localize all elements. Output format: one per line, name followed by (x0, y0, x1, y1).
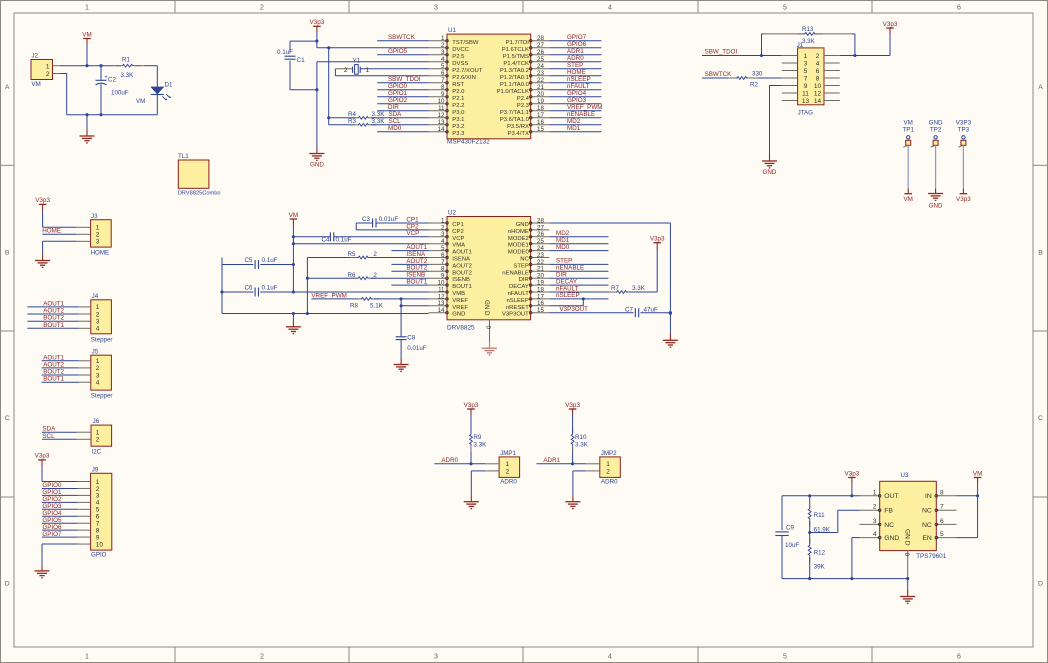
svg-text:MD0: MD0 (556, 244, 570, 251)
svg-text:4: 4 (441, 56, 445, 63)
svg-text:P3.7/TA1.1: P3.7/TA1.1 (500, 110, 529, 116)
svg-text:U3: U3 (901, 472, 909, 479)
svg-text:1: 1 (96, 358, 100, 365)
svg-text:ISENA: ISENA (452, 257, 470, 263)
svg-text:P2.4: P2.4 (517, 96, 530, 102)
svg-text:J4: J4 (92, 293, 99, 300)
svg-text:GPIO7: GPIO7 (567, 34, 587, 41)
svg-text:3.3K: 3.3K (121, 72, 135, 79)
svg-text:NC: NC (922, 508, 932, 515)
svg-text:1: 1 (804, 53, 808, 60)
svg-text:24: 24 (537, 63, 544, 70)
svg-text:3: 3 (441, 49, 445, 56)
svg-text:22: 22 (537, 77, 544, 84)
svg-text:MODE1: MODE1 (508, 243, 529, 249)
svg-text:2: 2 (344, 67, 348, 74)
svg-text:14: 14 (438, 307, 445, 314)
svg-text:GND: GND (310, 162, 324, 169)
svg-text:1: 1 (506, 461, 510, 468)
svg-text:HOME: HOME (42, 227, 61, 234)
svg-text:SDA: SDA (389, 111, 403, 118)
svg-text:V3p3: V3p3 (883, 21, 898, 28)
svg-text:AOUT1: AOUT1 (452, 250, 472, 256)
svg-text:2: 2 (96, 311, 100, 318)
svg-text:DRV8825: DRV8825 (447, 325, 475, 332)
svg-text:VREF_PWM: VREF_PWM (567, 104, 602, 111)
svg-text:P2.3: P2.3 (517, 103, 530, 109)
svg-text:A: A (5, 84, 10, 91)
svg-text:ADR0: ADR0 (567, 55, 584, 62)
svg-text:5.1K: 5.1K (370, 303, 384, 310)
svg-text:4: 4 (96, 380, 100, 387)
svg-text:GN D: GN D (483, 300, 490, 316)
svg-text:VREF: VREF (452, 305, 468, 311)
svg-text:28: 28 (537, 35, 544, 42)
svg-text:GND: GND (884, 535, 899, 542)
svg-text:GND: GND (929, 203, 943, 210)
svg-text:10: 10 (438, 98, 445, 105)
svg-text:JMP2: JMP2 (601, 450, 617, 457)
svg-text:nHOME: nHOME (508, 229, 529, 235)
svg-text:13: 13 (438, 119, 445, 126)
svg-text:TL1: TL1 (178, 153, 189, 160)
svg-text:2: 2 (96, 232, 100, 239)
svg-text:2: 2 (373, 251, 377, 258)
svg-text:3: 3 (434, 654, 438, 661)
svg-text:Stepper: Stepper (91, 392, 113, 399)
svg-text:15: 15 (537, 126, 544, 133)
svg-text:14: 14 (814, 98, 822, 105)
svg-text:Stepper: Stepper (91, 337, 113, 344)
svg-text:D: D (1038, 581, 1043, 588)
svg-text:3.3K: 3.3K (802, 38, 816, 45)
svg-text:P2.1: P2.1 (452, 96, 464, 102)
svg-text:U1: U1 (448, 27, 456, 34)
svg-text:J1: J1 (797, 42, 804, 49)
svg-text:MSP430F2132: MSP430F2132 (447, 139, 490, 146)
svg-text:nSLEEP: nSLEEP (556, 292, 580, 299)
svg-text:12: 12 (438, 112, 445, 119)
svg-text:4: 4 (816, 60, 820, 67)
svg-text:P3.1: P3.1 (452, 117, 464, 123)
svg-text:VCP: VCP (452, 236, 464, 242)
svg-text:MD2: MD2 (567, 118, 581, 125)
svg-text:R2: R2 (750, 82, 758, 89)
svg-text:V3p3: V3p3 (35, 197, 50, 204)
svg-text:5: 5 (96, 507, 100, 514)
svg-text:3.3K: 3.3K (372, 111, 386, 118)
svg-text:VM: VM (82, 31, 91, 38)
svg-text:5: 5 (441, 63, 445, 70)
svg-text:MODE2: MODE2 (508, 236, 529, 242)
svg-text:1: 1 (606, 461, 610, 468)
svg-text:I2C: I2C (92, 448, 102, 455)
svg-text:GPIO5: GPIO5 (42, 517, 62, 524)
svg-text:6: 6 (940, 518, 944, 525)
svg-text:6: 6 (441, 70, 445, 77)
svg-text:V3p3: V3p3 (956, 196, 971, 203)
svg-text:J5: J5 (92, 348, 99, 355)
svg-text:ADR0: ADR0 (500, 479, 517, 486)
svg-text:12: 12 (814, 90, 822, 97)
svg-text:8: 8 (816, 75, 820, 82)
svg-text:P3.2: P3.2 (452, 124, 464, 130)
svg-text:ISENA: ISENA (406, 251, 426, 258)
svg-text:VM: VM (289, 212, 298, 219)
svg-text:NC: NC (520, 257, 529, 263)
svg-text:3: 3 (96, 239, 100, 246)
svg-text:J3: J3 (91, 213, 98, 220)
svg-text:U2: U2 (448, 210, 456, 217)
svg-text:J2: J2 (32, 53, 39, 60)
svg-text:C8: C8 (407, 335, 416, 342)
svg-text:5: 5 (940, 531, 944, 538)
svg-text:nENABLE: nENABLE (567, 111, 595, 118)
svg-text:1: 1 (85, 654, 89, 661)
svg-text:6: 6 (96, 514, 100, 521)
svg-text:2: 2 (873, 504, 877, 511)
svg-text:R9: R9 (473, 434, 482, 441)
svg-text:R4: R4 (348, 111, 357, 118)
svg-text:C4: C4 (322, 236, 331, 243)
svg-text:0.1uF: 0.1uF (336, 236, 352, 243)
svg-text:3: 3 (434, 5, 438, 12)
svg-text:17: 17 (537, 112, 544, 119)
svg-text:nFAULT: nFAULT (508, 291, 530, 297)
svg-text:SBWTCK: SBWTCK (388, 34, 416, 41)
svg-text:C5: C5 (245, 257, 254, 264)
svg-text:AOUT1: AOUT1 (43, 300, 64, 307)
svg-text:ISENB: ISENB (452, 277, 470, 283)
svg-text:B: B (5, 250, 10, 257)
svg-text:AOUT2: AOUT2 (43, 308, 64, 315)
svg-text:P3.5/RX: P3.5/RX (507, 124, 529, 130)
svg-text:P3.4/TX: P3.4/TX (508, 131, 529, 137)
svg-text:3: 3 (873, 518, 877, 525)
svg-text:R8: R8 (350, 303, 359, 310)
svg-text:P2.5: P2.5 (452, 54, 465, 60)
svg-text:AOUT2: AOUT2 (43, 361, 64, 368)
svg-text:1: 1 (96, 225, 100, 232)
svg-text:7: 7 (96, 521, 100, 528)
svg-text:C1: C1 (297, 57, 306, 64)
svg-text:MD1: MD1 (567, 125, 581, 132)
svg-text:MD0: MD0 (388, 125, 402, 132)
svg-text:4: 4 (608, 654, 612, 661)
svg-text:25: 25 (537, 56, 544, 63)
svg-text:BOUT1: BOUT1 (452, 284, 472, 290)
svg-text:7: 7 (804, 75, 808, 82)
svg-text:nSLEEP: nSLEEP (507, 298, 529, 304)
svg-text:R12: R12 (814, 550, 826, 557)
svg-text:6: 6 (957, 654, 961, 661)
svg-text:VCP: VCP (406, 230, 419, 237)
svg-text:11: 11 (438, 105, 445, 112)
svg-text:HOME: HOME (567, 69, 586, 76)
svg-text:nFAULT: nFAULT (567, 83, 590, 90)
svg-text:HOME: HOME (91, 250, 110, 257)
svg-text:2: 2 (606, 468, 610, 475)
svg-text:3.3K: 3.3K (473, 442, 487, 449)
svg-text:GND: GND (763, 169, 777, 176)
svg-text:P1.4/TCK: P1.4/TCK (503, 61, 529, 67)
svg-text:100uF: 100uF (111, 90, 129, 97)
svg-text:26: 26 (537, 49, 544, 56)
svg-text:GND: GND (452, 312, 465, 318)
svg-text:TST/SBW: TST/SBW (452, 40, 479, 46)
svg-text:1: 1 (46, 63, 50, 70)
svg-text:C7: C7 (625, 306, 634, 313)
svg-text:VM: VM (136, 98, 145, 105)
svg-text:VM: VM (903, 196, 912, 203)
svg-text:V3P3: V3P3 (956, 119, 972, 126)
svg-text:19: 19 (537, 98, 544, 105)
svg-text:SDA: SDA (42, 426, 56, 433)
svg-text:8: 8 (96, 527, 100, 534)
svg-text:Y1: Y1 (353, 57, 361, 64)
svg-text:VREF: VREF (452, 298, 468, 304)
svg-text:3: 3 (96, 372, 100, 379)
svg-text:2: 2 (506, 468, 510, 475)
svg-text:ADR1: ADR1 (567, 48, 584, 55)
svg-text:20: 20 (537, 91, 544, 98)
svg-text:SBW_TDOI: SBW_TDOI (705, 49, 738, 56)
svg-text:1: 1 (873, 489, 877, 496)
svg-text:JMP1: JMP1 (500, 450, 516, 457)
svg-text:9: 9 (441, 91, 445, 98)
svg-text:2: 2 (96, 437, 100, 444)
svg-text:R6: R6 (348, 272, 357, 279)
svg-text:C9: C9 (786, 525, 795, 532)
svg-text:1: 1 (96, 304, 100, 311)
svg-text:3.3K: 3.3K (575, 442, 589, 449)
svg-text:0.1uF: 0.1uF (277, 49, 293, 56)
svg-text:V3p3: V3p3 (464, 402, 479, 409)
svg-text:4: 4 (873, 531, 877, 538)
svg-text:P1.7/TDI: P1.7/TDI (506, 40, 530, 46)
svg-text:STEP: STEP (567, 62, 583, 69)
svg-text:D: D (5, 581, 10, 588)
svg-text:R13: R13 (802, 26, 814, 33)
svg-text:2: 2 (373, 272, 377, 279)
svg-text:DVSS: DVSS (452, 61, 468, 67)
svg-text:10: 10 (96, 541, 104, 548)
svg-text:GPIO0: GPIO0 (42, 482, 62, 489)
svg-text:7: 7 (441, 77, 445, 84)
svg-text:VMB: VMB (452, 291, 465, 297)
svg-text:11: 11 (802, 90, 809, 97)
svg-text:nENABLE: nENABLE (502, 270, 529, 276)
svg-text:CP2: CP2 (452, 229, 463, 235)
svg-text:R3: R3 (348, 118, 357, 125)
svg-text:FB: FB (884, 508, 893, 515)
svg-text:V3p3: V3p3 (845, 470, 860, 477)
svg-text:V3p3: V3p3 (310, 19, 325, 26)
svg-text:2: 2 (46, 71, 50, 78)
svg-text:DRV8825Combo: DRV8825Combo (178, 191, 221, 197)
svg-text:GPIO3: GPIO3 (42, 503, 62, 510)
svg-text:0.1uF: 0.1uF (262, 257, 278, 264)
svg-text:10: 10 (814, 83, 822, 90)
svg-text:16: 16 (537, 119, 544, 126)
svg-text:2: 2 (441, 42, 445, 49)
svg-text:R1: R1 (122, 57, 130, 64)
svg-text:1: 1 (366, 67, 370, 74)
svg-text:VREF_PWM: VREF_PWM (311, 292, 346, 299)
svg-text:.47uF: .47uF (642, 306, 658, 313)
svg-text:BOUT2: BOUT2 (452, 270, 472, 276)
svg-text:VM: VM (32, 81, 41, 88)
svg-text:DECAY: DECAY (509, 284, 529, 290)
svg-text:VMA: VMA (452, 243, 465, 249)
svg-text:8: 8 (940, 489, 944, 496)
svg-text:21: 21 (537, 84, 544, 91)
svg-text:ISENB: ISENB (406, 272, 425, 279)
svg-text:C: C (5, 415, 10, 422)
svg-text:GND: GND (516, 222, 529, 228)
svg-text:GPIO1: GPIO1 (388, 90, 408, 97)
svg-text:2: 2 (816, 53, 820, 60)
svg-text:ADR0: ADR0 (441, 457, 458, 464)
svg-text:0: 0 (903, 553, 910, 557)
svg-text:P1.1/TA0.0: P1.1/TA0.0 (500, 82, 530, 88)
svg-text:OUT: OUT (884, 493, 898, 500)
svg-text:BOUT1: BOUT1 (406, 279, 427, 286)
svg-text:P2.6/XIN: P2.6/XIN (452, 75, 476, 81)
svg-text:3.3K: 3.3K (372, 118, 386, 125)
svg-text:DVCC: DVCC (452, 47, 469, 53)
svg-text:SBWTCK: SBWTCK (705, 71, 733, 78)
svg-text:MODE0: MODE0 (508, 250, 530, 256)
svg-text:27: 27 (537, 42, 544, 49)
svg-text:GPIO3: GPIO3 (567, 97, 587, 104)
svg-text:0.01uF: 0.01uF (379, 216, 399, 223)
svg-text:TP3: TP3 (958, 126, 970, 133)
svg-text:ADR1: ADR1 (543, 457, 560, 464)
svg-text:nRESET: nRESET (506, 305, 529, 311)
svg-text:VM: VM (973, 470, 982, 477)
svg-text:NC: NC (922, 522, 932, 529)
svg-text:R7: R7 (611, 285, 620, 292)
svg-text:C: C (1038, 415, 1043, 422)
svg-text:B: B (1038, 250, 1043, 257)
svg-text:V3P3OUT: V3P3OUT (560, 306, 589, 313)
svg-text:2: 2 (260, 654, 264, 661)
svg-text:EN: EN (922, 535, 932, 542)
svg-text:DIR: DIR (519, 277, 529, 283)
svg-text:39K: 39K (814, 564, 826, 571)
svg-text:7: 7 (940, 504, 944, 511)
svg-text:STEP: STEP (513, 263, 528, 269)
svg-text:GPIO1: GPIO1 (42, 489, 62, 496)
svg-text:R5: R5 (348, 251, 357, 258)
svg-text:ADR0: ADR0 (601, 479, 618, 486)
svg-text:TP2: TP2 (930, 126, 942, 133)
svg-text:P3.3: P3.3 (452, 131, 465, 137)
svg-text:9: 9 (96, 534, 100, 541)
svg-text:V3p3: V3p3 (35, 453, 50, 460)
svg-text:P1.2/TA0.1: P1.2/TA0.1 (500, 75, 529, 81)
svg-text:3: 3 (96, 493, 100, 500)
svg-text:BOUT2: BOUT2 (43, 369, 64, 376)
svg-text:A: A (1038, 84, 1043, 91)
svg-text:4: 4 (96, 326, 100, 333)
svg-text:AOUT1: AOUT1 (43, 354, 64, 361)
svg-text:RST: RST (452, 82, 464, 88)
svg-text:3: 3 (804, 60, 808, 67)
svg-text:23: 23 (537, 70, 544, 77)
svg-text:P1.0/TACLK: P1.0/TACLK (497, 89, 529, 95)
svg-text:IN: IN (925, 493, 932, 500)
svg-text:4: 4 (96, 500, 100, 507)
svg-text:1: 1 (96, 430, 100, 437)
svg-text:JTAG: JTAG (798, 110, 814, 117)
svg-text:2: 2 (96, 486, 100, 493)
svg-text:C3: C3 (362, 216, 371, 223)
svg-text:5: 5 (783, 5, 787, 12)
svg-text:GN D: GN D (903, 529, 910, 546)
svg-text:NC: NC (884, 522, 894, 529)
svg-text:10uF: 10uF (785, 542, 799, 549)
svg-text:GPIO7: GPIO7 (42, 531, 62, 538)
svg-text:5: 5 (804, 68, 808, 75)
svg-text:0: 0 (485, 326, 492, 330)
svg-text:GPIO2: GPIO2 (42, 496, 62, 503)
svg-text:GPIO: GPIO (91, 552, 107, 559)
svg-text:GPIO6: GPIO6 (42, 524, 62, 531)
svg-text:2: 2 (260, 5, 264, 12)
svg-text:1: 1 (85, 5, 89, 12)
svg-text:C6: C6 (245, 285, 254, 292)
svg-text:nSLEEP: nSLEEP (567, 76, 591, 83)
svg-text:V3p3: V3p3 (650, 236, 665, 243)
svg-text:P3.0: P3.0 (452, 110, 465, 116)
svg-text:V3P3OUT: V3P3OUT (502, 312, 529, 318)
svg-text:V3p3: V3p3 (565, 402, 580, 409)
svg-text:9: 9 (804, 83, 808, 90)
svg-text:C2: C2 (108, 77, 116, 84)
svg-text:P3.6/TA1.0: P3.6/TA1.0 (500, 117, 530, 123)
svg-text:3.3K: 3.3K (632, 285, 646, 292)
svg-text:330: 330 (752, 71, 763, 78)
svg-text:SCL: SCL (389, 118, 402, 125)
svg-text:BOUT1: BOUT1 (43, 322, 64, 329)
svg-text:J9: J9 (92, 466, 99, 473)
svg-text:0.1uF: 0.1uF (262, 285, 278, 292)
svg-text:1: 1 (96, 479, 100, 486)
svg-text:P1.5/TMS: P1.5/TMS (503, 54, 529, 60)
svg-text:1: 1 (441, 35, 445, 42)
svg-text:J6: J6 (93, 418, 100, 425)
svg-text:BOUT2: BOUT2 (43, 315, 64, 322)
svg-text:0.01uF: 0.01uF (407, 345, 427, 352)
svg-text:DIR: DIR (388, 104, 399, 111)
svg-text:GPIO6: GPIO6 (567, 41, 587, 48)
svg-text:GPIO4: GPIO4 (42, 510, 62, 517)
svg-text:3: 3 (96, 319, 100, 326)
svg-text:TP1: TP1 (902, 126, 914, 133)
svg-text:2: 2 (96, 365, 100, 372)
svg-text:P1.6TCLK: P1.6TCLK (502, 47, 529, 53)
svg-text:SCL: SCL (42, 433, 55, 440)
svg-text:P2.7/XOUT: P2.7/XOUT (452, 68, 483, 74)
svg-text:5: 5 (783, 654, 787, 661)
svg-text:GPIO2: GPIO2 (388, 97, 408, 104)
svg-text:P2.0: P2.0 (452, 89, 465, 95)
svg-text:18: 18 (537, 105, 544, 112)
svg-text:8: 8 (441, 84, 445, 91)
svg-text:D1: D1 (165, 82, 173, 89)
